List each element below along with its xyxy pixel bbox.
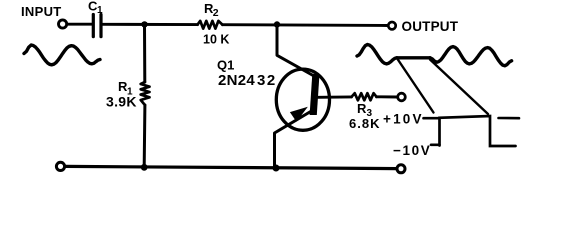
svg-text:10 K: 10 K xyxy=(203,33,229,47)
svg-text:INPUT: INPUT xyxy=(21,4,62,19)
svg-text:2N24: 2N24 xyxy=(218,72,255,89)
svg-text:+10V: +10V xyxy=(383,112,424,127)
svg-text:1: 1 xyxy=(97,5,103,16)
svg-text:2: 2 xyxy=(213,7,219,19)
svg-text:OUTPUT: OUTPUT xyxy=(402,19,459,34)
svg-text:6.8K: 6.8K xyxy=(349,116,380,131)
svg-text:Q1: Q1 xyxy=(217,58,234,73)
svg-text:3.9K: 3.9K xyxy=(106,94,137,110)
svg-text:R: R xyxy=(357,101,367,116)
svg-text:−10V: −10V xyxy=(393,143,431,158)
svg-text:32: 32 xyxy=(257,72,277,89)
